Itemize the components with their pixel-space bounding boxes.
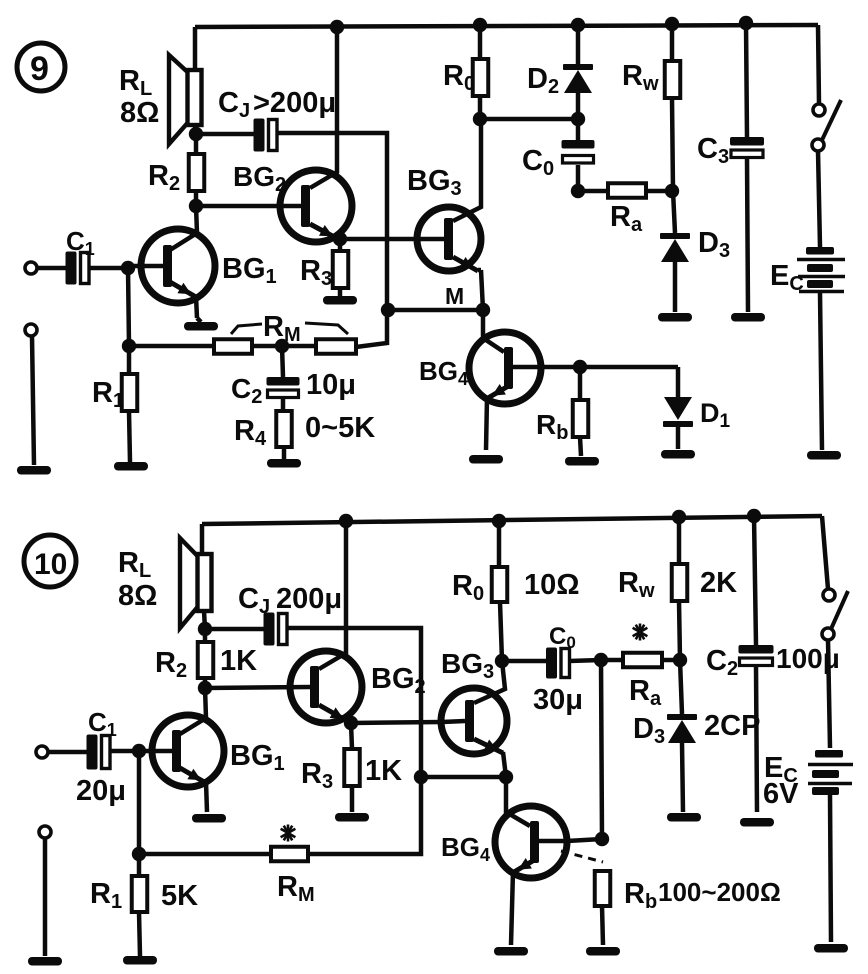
transistor BG3 (fig.10) — [441, 661, 507, 777]
label Rb (fig.10) — [624, 878, 657, 913]
wire speaker top (fig.10) — [200, 524, 205, 554]
transistor BG3 (fig.9) — [417, 119, 481, 271]
svg-text:>200μ: >200μ — [253, 87, 336, 119]
junction Rw / Ra / D3 (fig.9) — [665, 184, 679, 198]
label D3 (fig.9) — [698, 227, 730, 262]
junction RM rail left (fig.9) — [122, 339, 136, 353]
wire CJ to feedback column (fig.9) — [277, 133, 388, 310]
label R3 (fig.9) — [300, 255, 332, 290]
speaker RL (fig.10) — [180, 538, 212, 628]
label 6V (fig.10) — [763, 778, 799, 810]
wire feedback to BG3 emitter column (fig.10) — [421, 775, 506, 780]
label CJ&gt;200u (fig.9) — [218, 87, 336, 122]
label Ra (fig.10) — [629, 675, 662, 710]
resistor R0 (fig.10) — [492, 521, 508, 661]
ground C3 (fig.9) — [731, 313, 765, 322]
svg-text:1K: 1K — [365, 755, 402, 787]
resistor R1 (fig.10) — [132, 854, 148, 956]
svg-text:6V: 6V — [763, 778, 799, 810]
ground C2 (fig.10) — [740, 818, 774, 827]
junction R0 bottom (fig.9) — [473, 112, 487, 126]
capacitor C1 (fig.10) — [87, 735, 111, 770]
resistor RM (fig.10) — [139, 777, 421, 861]
label Rb (fig.9) — [536, 409, 568, 444]
ground BG4 emitter (fig.10) — [494, 947, 528, 956]
input terminal 2 (fig.10) — [39, 826, 51, 956]
label 10u (fig.9) — [306, 369, 356, 401]
resistor R4 (fig.9) — [276, 411, 292, 459]
ground input 2 (fig.9) — [17, 466, 51, 475]
label EC (fig.10) — [764, 752, 798, 787]
input terminal 1 (fig.10) — [36, 746, 87, 758]
diode D2 (fig.9) — [563, 25, 593, 119]
junction BG4 collector / Rb (fig.10) — [595, 832, 609, 846]
resistor R2 (fig.9) — [189, 134, 205, 206]
ground Rb (fig.9) — [565, 457, 599, 466]
label BG4 (fig.9) — [419, 356, 468, 389]
input terminal 2 (fig.9) — [25, 324, 37, 465]
ground BG1 emitter (fig.9) — [184, 318, 218, 331]
ground input 2 (fig.10) — [28, 957, 62, 966]
figure label 10 — [24, 535, 76, 587]
label Ra (fig.9) — [610, 201, 643, 236]
svg-text:8Ω: 8Ω — [118, 580, 157, 612]
label Rw (fig.9) — [622, 60, 659, 95]
wire Rb column (fig.9) — [578, 367, 583, 400]
capacitor C1 (fig.9) — [66, 252, 90, 285]
resistor R2 (fig.10) — [198, 629, 214, 688]
label BG1 (fig.9) — [222, 253, 277, 288]
label C0 (fig.10) — [549, 623, 576, 652]
wire R0 to D2 node (fig.9) — [480, 117, 578, 122]
figure label 9 — [17, 43, 65, 91]
junction M left (fig.9) — [381, 303, 395, 317]
label BG1 (fig.10) — [230, 740, 285, 775]
label D3 (fig.10) — [633, 713, 665, 748]
wire BG3 column down to M (fig.9) — [481, 270, 483, 310]
svg-text:10: 10 — [34, 548, 67, 581]
label R1 value 5K (fig.10) — [161, 880, 198, 912]
wire BG4 collector (fig.10) — [567, 839, 602, 841]
wire M (fig.9) — [388, 308, 483, 313]
junction C0 / Ra (fig.10) — [594, 653, 608, 667]
resistor Ra (fig.9) — [578, 183, 672, 198]
ground R1 (fig.10) — [123, 956, 157, 965]
label R0 value 10ohm (fig.10) — [524, 569, 580, 601]
wire base node down to RM rail (fig.9) — [128, 268, 129, 346]
diode D3 (fig.10) — [667, 660, 697, 812]
ground D3 (fig.10) — [667, 813, 701, 822]
label C0 (fig.9) — [522, 145, 554, 180]
junction bus / C2 (fig.10) — [747, 509, 761, 523]
label C0 value 30u (fig.10) — [533, 684, 583, 716]
capacitor CJ (fig.10) — [264, 613, 288, 646]
svg-text:9: 9 — [30, 50, 49, 88]
label C3 (fig.9) — [697, 133, 729, 168]
junction bus / C3 (fig.9) — [739, 16, 753, 30]
junction feedback node (fig.10) — [414, 770, 428, 784]
junction C0 / Ra (fig.9) — [571, 184, 585, 198]
label R2 value 1K (fig.10) — [220, 645, 257, 677]
label R4 (fig.9) — [234, 415, 267, 450]
label D3 value 2CP (fig.10) — [704, 710, 760, 742]
label EC (fig.9) — [770, 260, 804, 295]
label RL 8ohm (fig.9) — [119, 65, 159, 129]
label Rw value 2K (fig.10) — [700, 567, 737, 599]
label C1 (fig.10) — [88, 707, 117, 740]
svg-text:8Ω: 8Ω — [120, 97, 159, 129]
label Rw (fig.10) — [618, 567, 655, 602]
label Ra asterisk (fig.10) — [633, 624, 648, 641]
resistor Rb (fig.10) — [595, 871, 611, 945]
top supply bus wire (fig.10) — [202, 516, 822, 524]
wire CJ to feedback column (fig.10) — [287, 628, 422, 777]
label RM (fig.10) — [277, 871, 315, 906]
svg-text:0~5K: 0~5K — [305, 412, 375, 444]
wire C1 to BG1 base (fig.10) — [110, 749, 139, 754]
label D1 (fig.9) — [700, 398, 731, 432]
junction bus / Rw (fig.10) — [672, 510, 686, 524]
battery EC (fig.9) — [797, 247, 845, 450]
wire speaker bottom (fig.10) — [204, 611, 205, 629]
svg-text:30μ: 30μ — [533, 684, 583, 716]
transistor BG4 (fig.9) — [469, 310, 541, 450]
ground R3 (fig.10) — [335, 813, 369, 822]
resistor Rw (fig.9) — [665, 24, 681, 191]
transistor BG2 (fig.10) — [205, 521, 362, 723]
svg-text:M: M — [445, 283, 464, 309]
label BG2 (fig.10) — [371, 663, 426, 698]
junction R2 bottom / BG2 base (fig.10) — [198, 681, 212, 695]
label C2 value 100u (fig.10) — [776, 643, 840, 674]
junction R2 bottom / BG2 base (fig.9) — [189, 199, 203, 213]
capacitor C2 (fig.9) — [267, 346, 300, 411]
label R3 value 1K (fig.10) — [365, 755, 402, 787]
label BG4 (fig.10) — [441, 832, 490, 865]
junction BG1 base node (fig.9) — [121, 261, 135, 275]
junction BG1 base node (fig.10) — [132, 744, 146, 758]
junction speaker bottom (fig.10) — [198, 622, 212, 636]
diode D3 (fig.9) — [660, 191, 690, 312]
resistor Ra (fig.10) — [601, 653, 680, 668]
label R0 (fig.10) — [452, 570, 484, 605]
label RL 8ohm (fig.10) — [118, 547, 157, 612]
resistor RM right half (fig.9) — [252, 312, 387, 354]
junction Ra / Rw / D3 (fig.10) — [673, 653, 687, 667]
wire speaker top (fig.9) — [193, 27, 198, 70]
transistor BG1 (fig.9) — [128, 206, 215, 318]
battery EC 6V (fig.10) — [808, 750, 853, 942]
transistor BG4 (fig.10) — [495, 777, 567, 945]
label C2 (fig.9) — [231, 373, 262, 408]
junction RM center (fig.9) — [275, 339, 289, 353]
ground BG4 emitter (fig.9) — [469, 455, 503, 464]
label R2 (fig.10) — [155, 647, 187, 682]
wire BG2 emitter to BG3 base (fig.9) — [340, 237, 417, 242]
junction bus / Rw (fig.9) — [665, 17, 679, 31]
wire BG4 collector rail (fig.9) — [541, 365, 678, 370]
svg-text:5K: 5K — [161, 880, 198, 912]
resistor RM left half (fig.9) — [129, 339, 252, 354]
svg-text:2K: 2K — [700, 567, 737, 599]
ground D1 (fig.9) — [661, 450, 695, 459]
capacitor C2 (fig.10) — [739, 516, 774, 812]
ground R3 (fig.9) — [323, 296, 357, 305]
node M label (fig.9) — [445, 283, 464, 309]
dashed adjust arrow (fig.10) — [561, 851, 603, 862]
ground R1 (fig.9) — [114, 462, 148, 471]
junction BG2 emitter / R3 (fig.9) — [333, 232, 347, 246]
junction bus / BG2 collector (fig.10) — [339, 514, 353, 528]
junction R0 bottom / C0 (fig.10) — [495, 654, 509, 668]
ground R4 (fig.9) — [267, 459, 301, 468]
label BG3 (fig.10) — [441, 648, 494, 683]
label R0 (fig.9) — [443, 60, 475, 95]
top supply bus wire (fig.9) — [195, 25, 818, 27]
svg-text:2CP: 2CP — [704, 710, 760, 742]
svg-text:10Ω: 10Ω — [524, 569, 580, 601]
junction BG2 emitter / R3 (fig.10) — [344, 716, 358, 730]
label C1 (fig.9) — [66, 226, 95, 259]
ground Rb (fig.10) — [586, 947, 620, 956]
capacitor CJ (fig.9) — [254, 119, 278, 152]
capacitor C0 (fig.9) — [562, 119, 595, 191]
junction BG4 collector / Rb (fig.9) — [573, 360, 587, 374]
junction BG3 emitter node (fig.10) — [499, 770, 513, 784]
resistor Rb (fig.9) — [573, 400, 589, 456]
wire base node down to RM rail (fig.10) — [137, 751, 142, 854]
label C1 value 20u (fig.10) — [76, 775, 126, 807]
junction speaker bottom (fig.9) — [189, 127, 203, 141]
resistor R1 (fig.9) — [122, 346, 138, 462]
junction RM rail left (fig.10) — [132, 847, 146, 861]
ground D3 (fig.9) — [658, 313, 692, 322]
capacitor C3 (fig.9) — [730, 23, 764, 312]
label Rb value 100~200ohm (fig.10) — [658, 877, 781, 907]
switch S (fig.9) — [812, 25, 841, 247]
junction M right / BG4 base (fig.9) — [476, 303, 490, 317]
label CJ 200u (fig.10) — [238, 583, 342, 618]
resistor Rw (fig.10) — [672, 517, 688, 660]
speaker RL (fig.9) — [169, 55, 202, 144]
label BG2 (fig.9) — [233, 161, 286, 196]
wire C1 to BG1 base (fig.9) — [88, 266, 128, 271]
ground EC (fig.10) — [814, 944, 848, 953]
input terminal 1 (fig.9) — [25, 262, 66, 274]
svg-text:20μ: 20μ — [76, 775, 126, 807]
svg-text:100~200Ω: 100~200Ω — [658, 877, 781, 907]
svg-text:200μ: 200μ — [276, 583, 342, 615]
diode D1 (fig.9) — [663, 367, 693, 449]
label R1 (fig.9) — [92, 377, 124, 412]
junction D2 bottom (fig.9) — [571, 112, 585, 126]
label R2 (fig.9) — [148, 160, 180, 195]
capacitor C0 (fig.10) — [502, 648, 601, 679]
svg-text:1K: 1K — [220, 645, 257, 677]
transistor BG2 (fig.9) — [196, 27, 352, 242]
label C2 (fig.10) — [706, 645, 738, 680]
wire C0 node down to BG4 collector (fig.10) — [601, 660, 602, 839]
switch S (fig.10) — [822, 516, 848, 748]
resistor R0 (fig.9) — [473, 25, 489, 119]
resistor R3 (fig.10) — [344, 723, 360, 812]
label R1 (fig.10) — [90, 878, 122, 913]
ground EC (fig.9) — [807, 451, 841, 460]
junction bus / R0 (fig.10) — [492, 514, 506, 528]
label D2 (fig.9) — [527, 63, 559, 98]
transistor BG1 (fig.10) — [139, 688, 224, 812]
label R3 (fig.10) — [301, 758, 333, 793]
svg-text:10μ: 10μ — [306, 369, 356, 401]
label BG3 (fig.9) — [407, 165, 462, 200]
junction bus / R0 (fig.9) — [473, 18, 487, 32]
label RM asterisk (fig.10) — [281, 825, 296, 842]
junction bus / BG2 collector (fig.9) — [330, 20, 344, 34]
label RM with brace (fig.9) — [231, 311, 348, 346]
resistor R3 (fig.9) — [333, 239, 349, 297]
junction bus / D2 (fig.9) — [571, 18, 585, 32]
wire speaker bottom to CJ node (fig.9) — [195, 125, 254, 134]
wire BG2 emitter to BG3 base (fig.10) — [351, 722, 442, 723]
label 0~5K (fig.9) — [305, 412, 375, 444]
ground BG1 emitter (fig.10) — [192, 814, 226, 823]
wire to CJ (fig.10) — [205, 627, 264, 632]
